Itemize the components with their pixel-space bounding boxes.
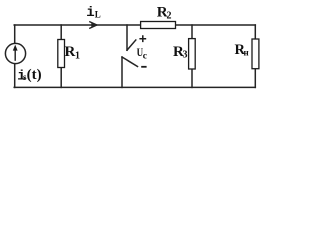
wire bottom rail	[14, 86, 255, 88]
svg-text:3: 3	[183, 50, 188, 61]
wire top rail	[14, 24, 255, 26]
label R3	[173, 44, 188, 61]
wire right rail top lead	[254, 25, 256, 39]
label i_s(t)	[17, 67, 41, 85]
label i_L	[86, 5, 101, 21]
label R2	[157, 5, 172, 22]
wire R3 branch top lead	[191, 25, 193, 39]
svg-text:i: i	[86, 5, 94, 21]
resistor R3 body	[189, 39, 196, 69]
svg-text:L: L	[95, 10, 101, 20]
label Rn	[235, 42, 249, 58]
wire R1 branch top lead	[60, 25, 62, 40]
label minus polarity	[141, 66, 146, 68]
svg-text:c: c	[143, 51, 147, 61]
label R1	[65, 44, 81, 62]
svg-text:R: R	[65, 44, 76, 60]
wire right rail bottom lead	[254, 69, 256, 88]
switch blade top contact diagonal	[127, 40, 136, 50]
wire left rail bottom segment	[14, 64, 16, 87]
svg-text:н: н	[244, 48, 249, 58]
resistor R2 body	[141, 22, 176, 29]
label plus polarity	[139, 35, 146, 42]
resistor R1 body	[58, 40, 65, 68]
switch blade bottom contact diagonal	[122, 57, 138, 67]
resistor Rn body	[252, 39, 259, 69]
svg-text:(t): (t)	[27, 67, 42, 83]
label Uc	[137, 47, 147, 62]
wire left rail top segment	[14, 25, 16, 43]
wire R1 branch bottom lead	[60, 68, 62, 88]
wire R3 branch bottom lead	[191, 69, 193, 87]
wire switch branch top lead	[126, 25, 128, 50]
current source Is circle	[5, 43, 25, 63]
svg-text:1: 1	[75, 51, 80, 62]
current source Is arrow	[13, 45, 18, 61]
wire switch branch bottom lead	[121, 57, 123, 87]
svg-text:2: 2	[167, 11, 172, 22]
arrow iL on top wire	[89, 22, 97, 29]
